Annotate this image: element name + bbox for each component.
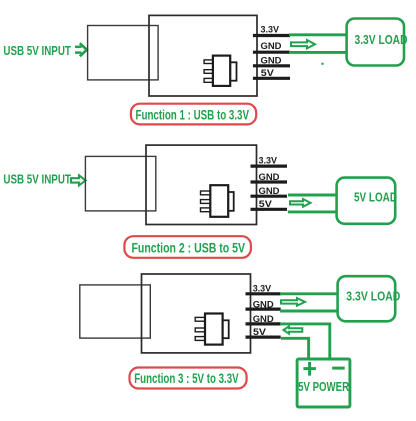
regulator U2 SOT-223 (section 2) xyxy=(201,185,234,217)
USB connector J3 (section 3) xyxy=(80,285,151,338)
pin 5V (section 2) xyxy=(251,199,288,210)
flow arrow from power (section 3, pointing left) xyxy=(283,326,302,333)
net label USB 5V INPUT (section 1) xyxy=(3,43,71,58)
pin 3.3V (section 2) xyxy=(251,155,288,166)
wire GND to power minus (section 3) xyxy=(280,324,330,359)
wire GND to load (section 3) xyxy=(280,310,339,313)
wire 3.3V to load (section 3) xyxy=(280,292,339,295)
pin GND 1 (section 2) xyxy=(251,172,288,183)
svg-text:GND: GND xyxy=(253,314,274,325)
regulator U1 SOT-223 (section 1) xyxy=(204,56,236,86)
wire GND to load (section 1) xyxy=(289,51,348,54)
flow arrow to load (section 1) xyxy=(291,40,315,48)
svg-text:3.3V LOAD: 3.3V LOAD xyxy=(346,289,400,304)
svg-text:GND: GND xyxy=(253,299,274,310)
battery 5V POWER (section 3) xyxy=(297,359,350,407)
svg-text:3.3V: 3.3V xyxy=(253,284,272,295)
USB connector J2 (section 2) xyxy=(85,156,155,211)
pin GND 2 (section 1) xyxy=(253,55,290,66)
pin 5V (section 1) xyxy=(253,68,290,79)
svg-text:GND: GND xyxy=(261,55,282,66)
converter board PCB outline (section 1) xyxy=(149,15,257,96)
USB connector J1 (section 1) xyxy=(88,26,159,80)
flow arrow to load (section 3) xyxy=(281,298,305,306)
svg-text:Function 1 : USB to 3.3V: Function 1 : USB to 3.3V xyxy=(136,106,250,122)
wire GND to load (section 2) xyxy=(288,194,338,197)
svg-text:5V: 5V xyxy=(253,327,267,338)
pin GND 1 (section 3) xyxy=(246,299,281,310)
converter board PCB outline (section 3) xyxy=(142,274,251,353)
3.3V LOAD box (section 3) xyxy=(338,276,401,321)
pin GND 1 (section 1) xyxy=(253,41,290,52)
wire 3.3V to load (section 1) xyxy=(289,33,348,36)
svg-text:USB 5V INPUT: USB 5V INPUT xyxy=(3,43,71,58)
svg-text:GND: GND xyxy=(259,172,280,183)
svg-text:Function 2 : USB to 5V: Function 2 : USB to 5V xyxy=(132,240,246,256)
svg-text:3.3V: 3.3V xyxy=(259,155,278,166)
wire 5V from power plus (section 3) xyxy=(281,338,309,359)
3.3V LOAD box (section 1) xyxy=(347,19,408,66)
svg-text:GND: GND xyxy=(261,41,282,52)
svg-text:5V: 5V xyxy=(261,68,275,79)
converter board PCB outline (section 2) xyxy=(146,145,257,224)
svg-text:USB 5V INPUT: USB 5V INPUT xyxy=(3,172,71,187)
caption Function 3 xyxy=(130,368,247,389)
caption Function 2 xyxy=(124,236,250,258)
pin GND 2 (section 3) xyxy=(246,314,281,325)
wire 5V to load (section 2) xyxy=(288,210,338,213)
5V LOAD box (section 2) xyxy=(337,178,397,224)
svg-text:5V: 5V xyxy=(259,199,273,210)
svg-text:3.3V LOAD: 3.3V LOAD xyxy=(355,32,408,47)
net label USB 5V INPUT (section 2) xyxy=(3,172,71,187)
input flow arrow (double-stroke) section 1 xyxy=(75,43,87,56)
input flow arrow (hollow) section 2 xyxy=(71,175,86,185)
pin 3.3V (section 1) xyxy=(253,25,290,36)
svg-text:GND: GND xyxy=(259,186,280,197)
svg-text:5V LOAD: 5V LOAD xyxy=(354,190,397,205)
pin 5V (section 3) xyxy=(246,327,281,338)
regulator U3 SOT-223 (section 3) xyxy=(195,314,229,345)
svg-text:Function 3 : 5V to 3.3V: Function 3 : 5V to 3.3V xyxy=(134,370,239,386)
svg-text:3.3V: 3.3V xyxy=(261,25,280,36)
flow arrow to load (section 2) xyxy=(290,199,311,207)
pin 3.3V (section 3) xyxy=(246,284,281,295)
svg-text:5V POWER: 5V POWER xyxy=(298,379,349,394)
pin GND 2 (section 2) xyxy=(251,186,288,197)
solder speck (section 1) xyxy=(321,63,323,65)
caption Function 1 xyxy=(131,104,256,125)
